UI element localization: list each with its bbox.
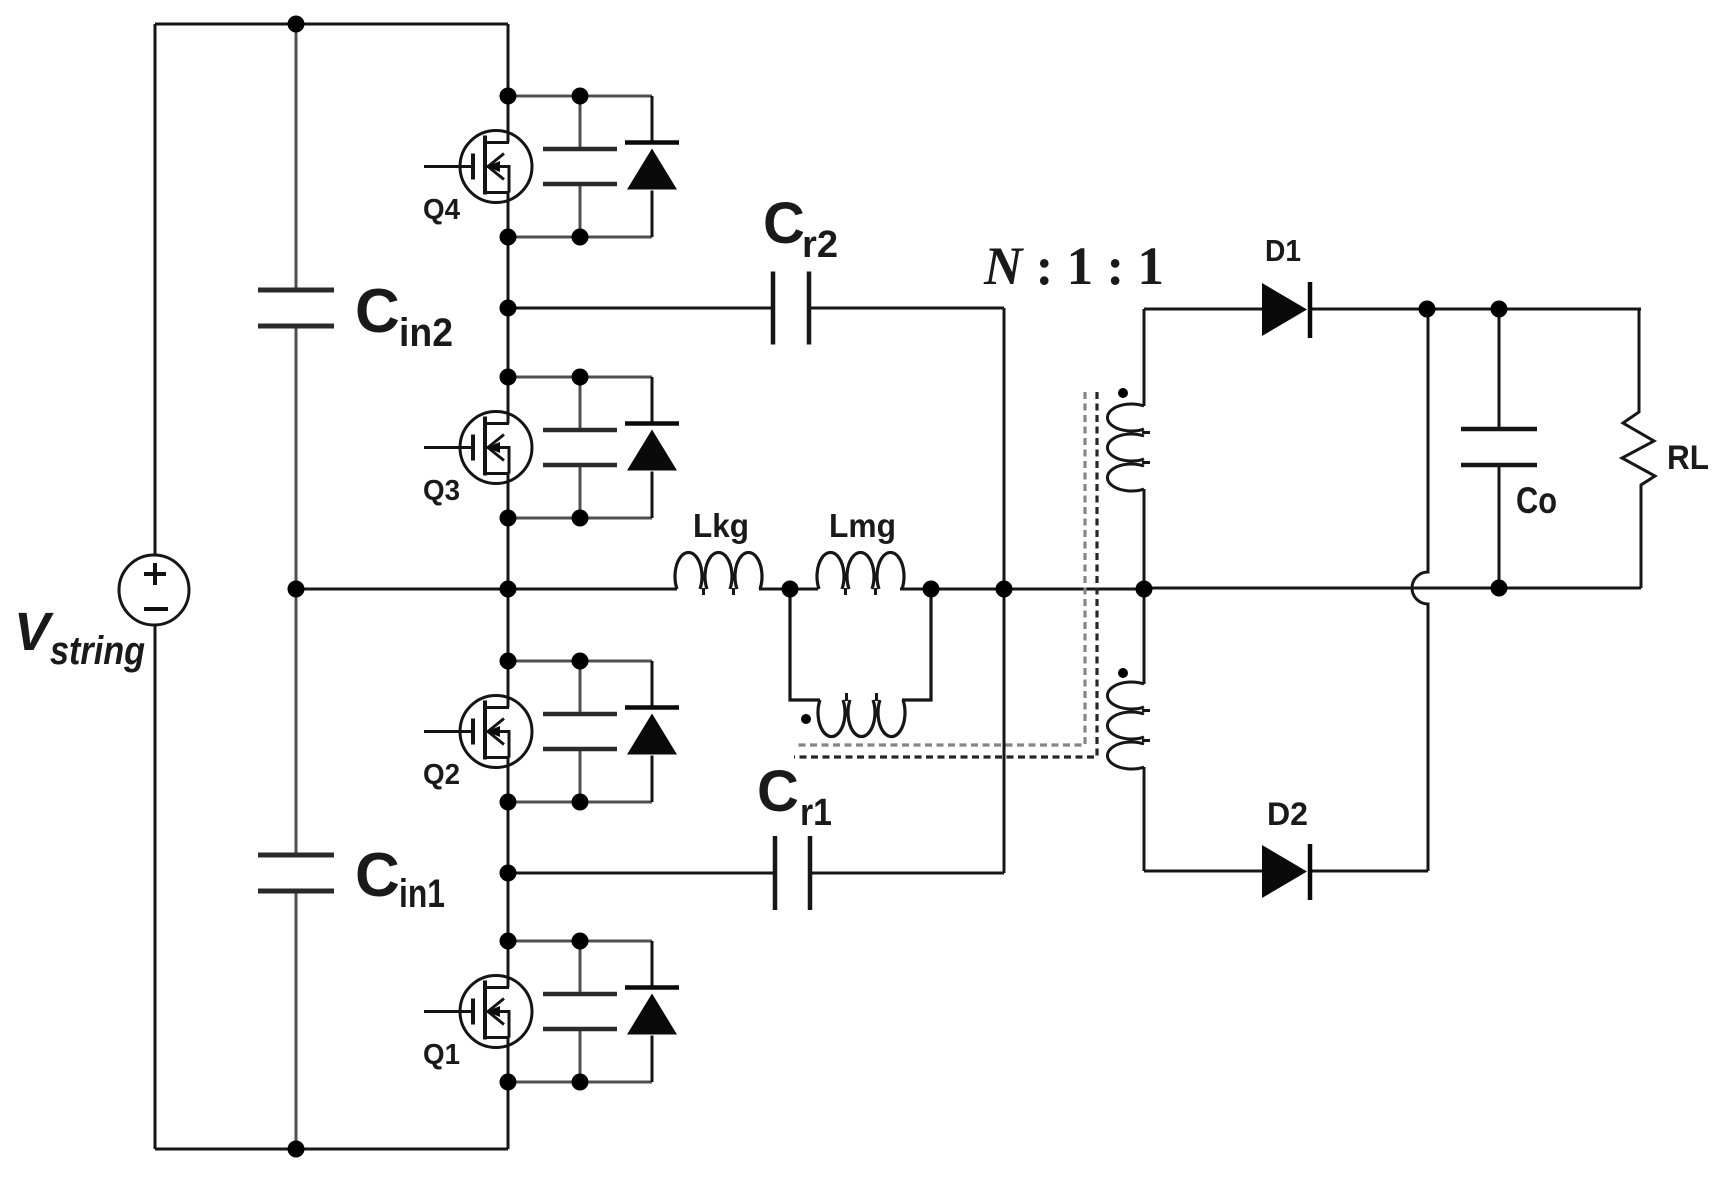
svg-text:Q2: Q2 xyxy=(423,759,460,791)
svg-text:in2: in2 xyxy=(399,311,453,355)
svg-text:V: V xyxy=(14,602,54,662)
svg-text:in1: in1 xyxy=(399,872,445,916)
svg-text:Lmg: Lmg xyxy=(829,507,896,544)
svg-text:r1: r1 xyxy=(800,792,832,834)
svg-text:RL: RL xyxy=(1667,439,1709,477)
svg-text:Lkg: Lkg xyxy=(693,507,749,544)
svg-text:string: string xyxy=(50,629,145,673)
svg-text:C: C xyxy=(757,759,799,824)
svg-text:C: C xyxy=(763,191,805,256)
svg-text:Q1: Q1 xyxy=(423,1039,460,1071)
svg-text:Q3: Q3 xyxy=(423,475,460,507)
svg-text:Co: Co xyxy=(1516,480,1557,521)
svg-text:C: C xyxy=(355,841,400,910)
svg-text:C: C xyxy=(355,277,400,346)
svg-text:D1: D1 xyxy=(1265,233,1301,268)
svg-text:r2: r2 xyxy=(802,224,838,266)
svg-text:D2: D2 xyxy=(1267,796,1308,832)
svg-text:Q4: Q4 xyxy=(423,194,460,226)
svg-text:N : 1 : 1: N : 1 : 1 xyxy=(983,236,1164,296)
